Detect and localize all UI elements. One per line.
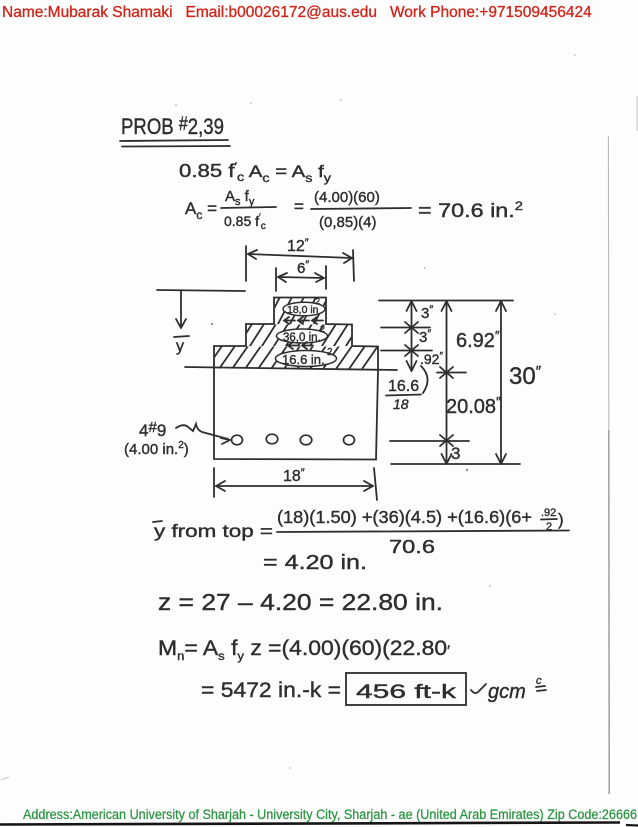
svg-text:′2: ′2 bbox=[314, 297, 321, 306]
chevron arrows row 2 bbox=[288, 342, 313, 349]
svg-text:6.92″: 6.92″ bbox=[456, 328, 500, 352]
extension line at rebar level y=441 bbox=[390, 440, 469, 442]
svg-text:gcm: gcm bbox=[488, 681, 526, 703]
12" dimension bbox=[246, 237, 354, 281]
svg-text:18: 18 bbox=[393, 396, 409, 412]
svg-text:.92″: .92″ bbox=[420, 351, 443, 367]
18" dimension bbox=[214, 467, 377, 500]
title PROB #2.39 bbox=[120, 114, 230, 147]
svg-text:3″: 3″ bbox=[421, 304, 433, 322]
svg-text:3: 3 bbox=[451, 444, 460, 463]
left reference line bbox=[157, 290, 245, 291]
svg-text:= 5472 in.-k =: = 5472 in.-k = bbox=[201, 678, 341, 702]
extension line y=327.5 bbox=[381, 327, 430, 329]
svg-text:Mn= As fy z =(4.00)(60)(22.80′: Mn= As fy z =(4.00)(60)(22.80′ bbox=[158, 637, 450, 663]
ybar from top = fraction bbox=[153, 507, 569, 557]
neutral axis line under hatch bbox=[185, 367, 397, 370]
signature squiggle bbox=[471, 675, 546, 703]
extension line y=350.5 bbox=[381, 350, 432, 352]
svg-text:): ) bbox=[558, 510, 564, 529]
right side: top extension line bbox=[379, 300, 513, 302]
svg-text:16.6: 16.6 bbox=[388, 378, 419, 395]
svg-text:.92: .92 bbox=[541, 507, 556, 519]
svg-text:(4.00 in.2): (4.00 in.2) bbox=[124, 440, 189, 458]
svg-text:16.6 in.: 16.6 in. bbox=[282, 352, 325, 367]
svg-text:(0,85)(4): (0,85)(4) bbox=[319, 214, 377, 231]
svg-text:z = 27 – 4.20 = 22.80 in.: z = 27 – 4.20 = 22.80 in. bbox=[158, 589, 443, 615]
dimension line 3 (30") bbox=[496, 301, 542, 464]
hatching: bottom strip bbox=[206, 346, 378, 369]
area oval 18.0 in2 bbox=[283, 297, 325, 316]
beam cross-section outline bbox=[214, 298, 378, 460]
equation line 1: 0.85 f'c Ac = As fy bbox=[179, 160, 331, 185]
svg-text:=: = bbox=[294, 197, 304, 216]
svg-text:6″: 6″ bbox=[297, 259, 309, 277]
svg-text:18″: 18″ bbox=[283, 467, 305, 485]
area oval 16.6 in2 bbox=[276, 347, 337, 367]
16.6/18 fraction bbox=[386, 366, 428, 412]
svg-text:c: c bbox=[536, 675, 542, 687]
svg-text:2: 2 bbox=[320, 324, 325, 334]
svg-text:2: 2 bbox=[327, 347, 333, 358]
svg-text:As fy: As fy bbox=[225, 188, 255, 208]
dimension line 1 (3", 3", .92") bbox=[405, 301, 443, 371]
svg-text:= 70.6 in.2: = 70.6 in.2 bbox=[418, 199, 523, 222]
dimension line 2 (6.92 / 20.08 / 3) bbox=[440, 301, 501, 464]
area oval 36.0 in2 bbox=[277, 324, 328, 344]
svg-text:= 4.20 in.: = 4.20 in. bbox=[263, 552, 367, 574]
svg-text:30″: 30″ bbox=[509, 363, 542, 390]
footer rule bbox=[0, 818, 638, 827]
svg-text:3″: 3″ bbox=[419, 328, 431, 346]
svg-text:(18)(1.50) +(36)(4.5) +(16.6)(: (18)(1.50) +(36)(4.5) +(16.6)(6+ bbox=[277, 507, 532, 527]
hatching: middle step bbox=[238, 324, 360, 346]
svg-text:12″: 12″ bbox=[287, 237, 309, 255]
hatching: top step bbox=[266, 297, 328, 324]
answer box 456 ft-k bbox=[346, 673, 466, 705]
rebar label 4#9 (4.00 in.2) bbox=[124, 419, 230, 458]
6" dimension bbox=[276, 259, 326, 291]
svg-text:4#9: 4#9 bbox=[139, 419, 166, 440]
svg-text:36,0 in.: 36,0 in. bbox=[283, 332, 321, 344]
svg-text:y: y bbox=[176, 338, 184, 355]
svg-text:y from top =: y from top = bbox=[154, 521, 273, 541]
svg-text:20.08″: 20.08″ bbox=[446, 394, 501, 418]
svg-text:Ac =: Ac = bbox=[185, 199, 217, 222]
y-bar arrow bbox=[174, 291, 189, 355]
header contact line bbox=[2, 4, 592, 22]
bottom extension line y=464 bbox=[391, 463, 520, 465]
rebar circles bbox=[232, 434, 355, 445]
svg-text:456 ft-k: 456 ft-k bbox=[356, 681, 456, 703]
chevron arrows row 1 bbox=[284, 317, 323, 324]
equation line 2: Ac = As fy / 0.85 f'c = (4.00)(60)/((0.85)(4)) = 70.6 in^2 bbox=[185, 188, 523, 232]
short neutral line at dim2 bbox=[437, 372, 466, 374]
svg-text:(4.00)(60): (4.00)(60) bbox=[314, 189, 380, 206]
svg-text:70.6: 70.6 bbox=[389, 536, 435, 557]
svg-text:0.85 f′c: 0.85 f′c bbox=[224, 212, 266, 232]
svg-text:0.85 f′c Ac = As fy: 0.85 f′c Ac = As fy bbox=[179, 160, 331, 185]
svg-text:PROB #2,39: PROB #2,39 bbox=[121, 114, 224, 139]
